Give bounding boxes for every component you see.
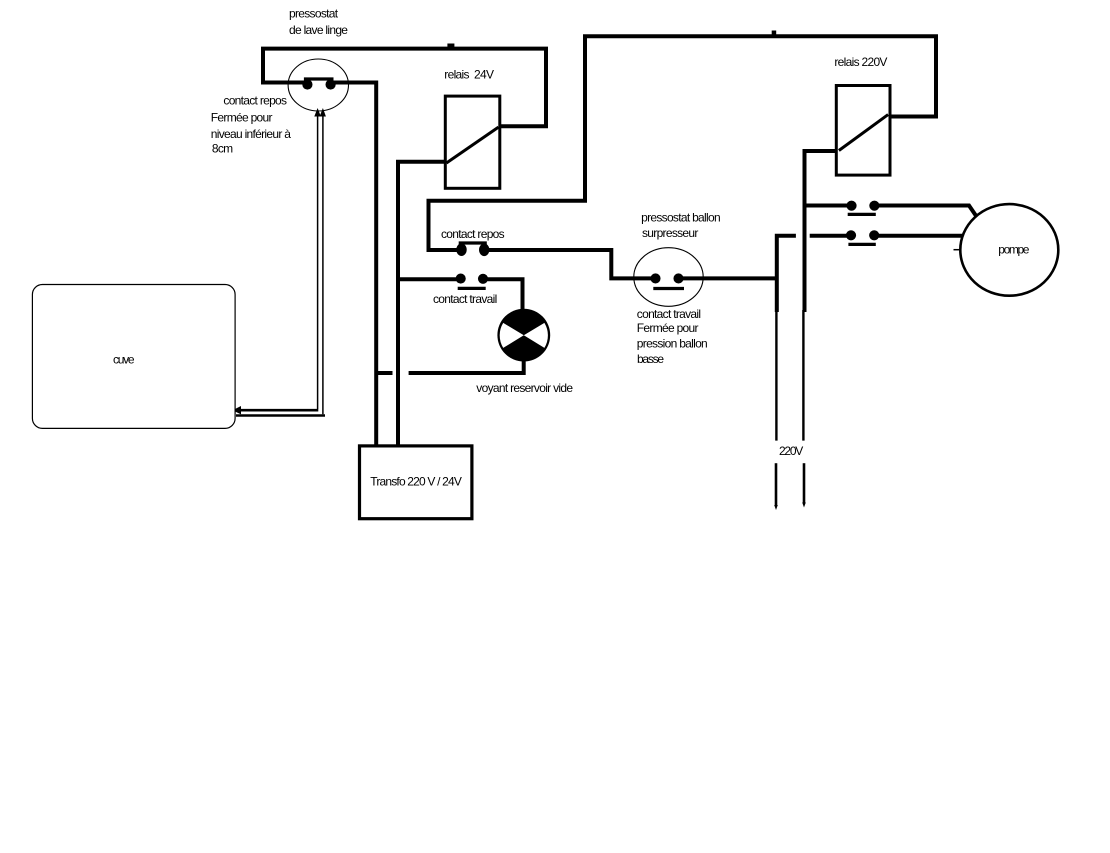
svg-text:voyant reservoir vide: voyant reservoir vide	[476, 381, 573, 395]
wire: 220V supply right lower end	[802, 463, 806, 507]
wire: 220V supply left lower end	[774, 463, 778, 510]
wire: pressostat lave-linge output down to transformer	[331, 83, 376, 449]
cuve tank	[32, 285, 235, 429]
wire: cuve level sensor line outer	[236, 108, 326, 416]
svg-text:relais 24V: relais 24V	[444, 68, 494, 82]
lamp voyant reservoir vide	[497, 309, 550, 362]
svg-text:surpresseur: surpresseur	[642, 226, 698, 240]
wire: contact travail feed from 24V line	[398, 277, 457, 281]
relay coil relais 220V	[836, 86, 890, 176]
svg-text:contact repos: contact repos	[223, 94, 287, 108]
pressostat ballon body	[634, 248, 703, 307]
wire: lamp return jumper stub	[378, 371, 393, 375]
wire: pump contact 2 left segment	[810, 234, 847, 238]
pump contact 1 (NO)	[846, 201, 879, 215]
wire: contact repos output to pressostat ballon	[487, 250, 652, 278]
svg-text:pressostat ballon: pressostat ballon	[641, 211, 720, 225]
pressostat lave-linge contact repos (NC)	[302, 79, 335, 90]
pump contact 2 (NO)	[846, 230, 879, 244]
svg-text:relais 220V: relais 220V	[834, 55, 887, 69]
wire: 220V phase line from relais 220V right to contact repos	[429, 31, 937, 251]
svg-text:basse: basse	[637, 352, 664, 366]
svg-text:pompe: pompe	[998, 243, 1029, 257]
svg-text:niveau inférieur à: niveau inférieur à	[211, 127, 291, 141]
svg-text:8cm: 8cm	[212, 142, 233, 156]
svg-text:contact travail: contact travail	[433, 292, 497, 306]
transformer Transfo 220V/24V	[360, 446, 472, 519]
wire: cuve level sensor line inner	[233, 108, 321, 414]
svg-text:pressostat: pressostat	[289, 7, 339, 21]
wire: relais 24V coil left down to transformer	[398, 162, 446, 448]
svg-text:pression ballon: pression ballon	[637, 337, 707, 351]
contact repos of relais 24V (NC)	[456, 243, 489, 256]
svg-text:Fermée pour: Fermée pour	[211, 111, 273, 125]
svg-text:Transfo 220 V / 24V: Transfo 220 V / 24V	[370, 475, 462, 489]
wire: pressostat ballon output to neutral branch node	[682, 276, 776, 280]
wire: left 220V supply branch upper	[777, 236, 796, 312]
wire: contact travail output to lamp	[487, 279, 523, 310]
svg-text:de lave linge: de lave linge	[289, 23, 348, 37]
label: contact travail ballon block	[637, 307, 707, 366]
label: contact repos lave-linge block	[211, 94, 291, 156]
svg-text:Fermée pour: Fermée pour	[637, 321, 699, 335]
wire: pump contact 1 to pompe	[877, 206, 977, 217]
wire: pump contact 1 feed	[806, 204, 848, 208]
wire: pump contact 2 to pompe	[876, 234, 964, 238]
pressostat ballon contact travail (NO)	[650, 273, 684, 288]
svg-text:cuve: cuve	[113, 352, 135, 366]
svg-text:contact travail: contact travail	[637, 307, 701, 321]
label: pressostat ballon surpresseur	[641, 211, 720, 241]
svg-text:contact repos: contact repos	[441, 227, 505, 241]
wire: top 24V loop from pressostat lave-linge to relais 24V coil right	[263, 44, 546, 127]
label: pressostat de lave linge	[289, 7, 348, 37]
contact travail of relais 24V (NO)	[456, 274, 488, 289]
svg-text:220V: 220V	[779, 444, 803, 458]
wire: relais 220V coil left / neutral vertical	[805, 151, 838, 312]
wire: lamp return to 24V line	[409, 360, 524, 373]
pompe motor	[954, 204, 1059, 296]
relay coil relais 24V	[445, 96, 500, 188]
pressostat lave-linge body	[288, 59, 348, 111]
